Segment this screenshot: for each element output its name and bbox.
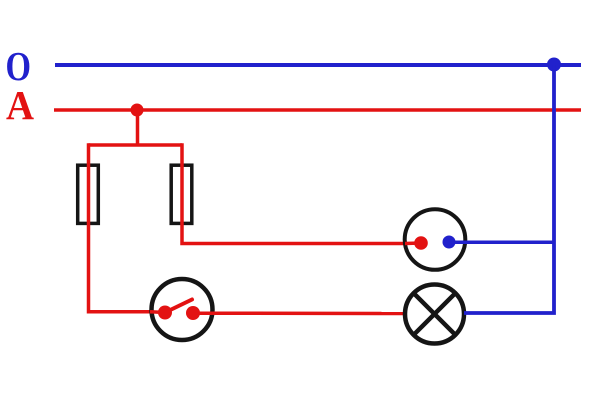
wire: red into socket — [405, 241, 421, 245]
switch contact left — [158, 306, 172, 320]
junction dot on bus A — [131, 104, 144, 117]
wire: splitter to both fuses — [89, 143, 183, 147]
wire: phase bus A — [54, 108, 581, 112]
wire: right branch through fuse F2 down — [182, 143, 407, 243]
switch contact right — [186, 306, 200, 320]
fuse F1 (left) — [78, 165, 99, 223]
wire: socket to neutral drop — [449, 241, 554, 245]
switch lever — [165, 300, 192, 313]
wire: into switch — [150, 310, 165, 314]
socket X1 — [405, 209, 466, 270]
switch S1 — [152, 279, 213, 340]
socket neutral pin (blue) — [443, 236, 456, 249]
svg-text:A: A — [6, 82, 34, 128]
lamp cross stroke 1 — [414, 293, 455, 334]
wire: neutral drop and return to lamp — [464, 65, 554, 314]
fuse F2 (right) — [171, 165, 192, 223]
junction dot on bus O — [547, 58, 561, 72]
lamp E1 — [405, 285, 464, 344]
socket phase pin (red) — [414, 236, 428, 250]
wire: switch to lamp — [193, 311, 405, 315]
wire: neutral bus O — [55, 63, 581, 67]
wire: feed drop from bus A — [136, 110, 140, 145]
lamp cross stroke 2 — [414, 293, 455, 334]
wire: left branch through fuse F1 down — [89, 143, 151, 311]
